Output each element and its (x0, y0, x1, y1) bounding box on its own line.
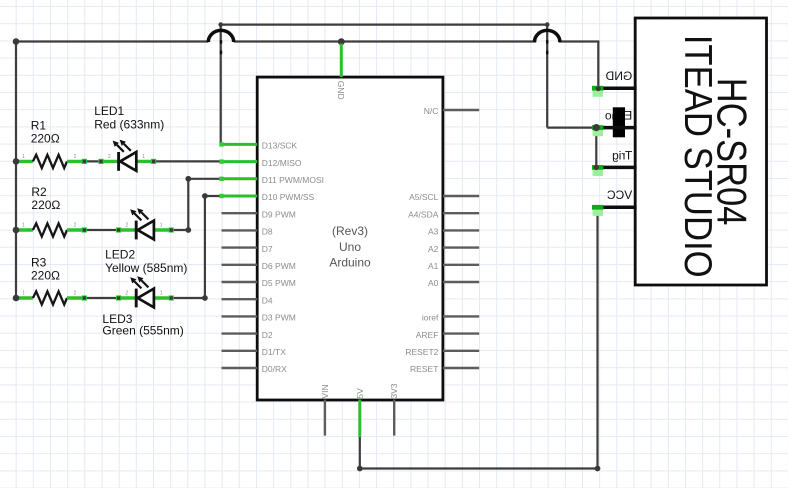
node gnd end (596, 86, 601, 91)
resistor R3 body (33, 291, 67, 304)
wire 5v down (359, 437, 361, 469)
svg-text:VCC: VCC (607, 188, 633, 202)
arduino pin D0/RX (222, 367, 258, 369)
svg-text:D7: D7 (262, 244, 273, 254)
svg-text:Yellow (585nm): Yellow (585nm) (105, 261, 187, 275)
wire row3 resistor-led (84, 297, 118, 299)
arduino pin D11 PWM/MOSI (222, 177, 258, 180)
wire d13 top horizontal (221, 24, 548, 26)
hc-sr04 pin VCC (593, 206, 637, 210)
svg-text:N/C: N/C (424, 106, 439, 116)
wire row2 to d11 (188, 178, 221, 180)
row3 pads (82, 295, 87, 300)
resistor R3 right leg (67, 296, 84, 299)
LED3 cathode bar (135, 289, 138, 308)
svg-text:D6 PWM: D6 PWM (262, 261, 296, 271)
junction gnd R1 (13, 158, 20, 165)
resistor R2 left leg (16, 228, 33, 231)
arduino pin D8 (222, 229, 258, 231)
node trig end (594, 165, 599, 170)
svg-text:A3: A3 (428, 227, 439, 237)
svg-text:1: 1 (22, 154, 25, 160)
corner d13 top (218, 22, 223, 27)
svg-text:Arduino: Arduino (329, 256, 371, 270)
corner vcc bottom (595, 466, 601, 472)
svg-text:D1/TX: D1/TX (262, 347, 286, 357)
wire row2 corner-up (187, 179, 189, 230)
arduino pin D6 PWM (222, 264, 258, 266)
svg-text:1: 1 (142, 154, 145, 160)
svg-text:A5/SCL: A5/SCL (409, 192, 439, 202)
LED3 right leg (154, 296, 171, 299)
wire gnd top horizontal seg1 (15, 40, 209, 42)
svg-text:(Rev3): (Rev3) (332, 224, 368, 238)
svg-text:2: 2 (74, 222, 77, 228)
svg-text:1: 1 (22, 290, 25, 296)
wire row2 led-corner (171, 229, 188, 231)
junction gnd R3 (13, 295, 20, 302)
svg-text:2: 2 (126, 222, 129, 228)
svg-text:D2: D2 (262, 330, 273, 340)
svg-text:220Ω: 220Ω (31, 268, 60, 282)
resistor R1 body (33, 155, 67, 168)
LED2 right leg (154, 228, 171, 231)
arduino pin GND stub (340, 44, 343, 78)
wire row1 resistor-led (84, 160, 101, 162)
svg-text:220Ω: 220Ω (31, 131, 60, 145)
corner echo top (545, 22, 550, 27)
svg-text:2: 2 (126, 290, 129, 296)
svg-text:5V: 5V (355, 388, 365, 399)
hc-sr04 pin Trig (593, 166, 637, 170)
svg-text:2: 2 (108, 154, 111, 160)
junction gnd arduino (338, 38, 345, 45)
wire row3 to d10 (205, 195, 222, 197)
wire gnd rail vertical (15, 40, 17, 298)
LED3 arrows (134, 281, 141, 288)
arduino U1 body (257, 77, 443, 400)
arduino pin D9 PWM (222, 212, 258, 214)
svg-text:RESET2: RESET2 (405, 347, 438, 357)
svg-text:1: 1 (160, 290, 163, 296)
corner row2 top (185, 176, 191, 182)
svg-text:ioref: ioref (422, 313, 439, 323)
hc-sr04 U2 body (635, 18, 766, 285)
resistor R2 body (33, 223, 67, 236)
svg-text:D8: D8 (262, 227, 273, 237)
arduino pin A5/SCL (443, 195, 479, 197)
wire row3 corner-up (204, 196, 206, 298)
svg-text:A2: A2 (428, 244, 439, 254)
junction echo (593, 124, 600, 131)
svg-text:A4/SDA: A4/SDA (408, 209, 439, 219)
arduino pin 3V3 (393, 400, 395, 436)
wire gnd top horizontal seg3 (559, 40, 600, 42)
svg-text:D5 PWM: D5 PWM (262, 278, 296, 288)
arduino pin D1/TX (222, 350, 258, 352)
arduino pin D5 PWM (222, 281, 258, 283)
svg-text:VIN: VIN (320, 384, 330, 398)
LED1 left leg (101, 160, 119, 163)
arduino pin RESET (443, 367, 479, 369)
svg-text:D10 PWM/SS: D10 PWM/SS (262, 192, 315, 202)
arduino pin A0 (443, 281, 479, 283)
wire row1 led-d12 (154, 160, 222, 162)
arduino pin 5V (358, 400, 361, 438)
arduino pin N/C (443, 109, 479, 111)
arduino pin D13/SCK (222, 143, 258, 146)
resistor R3 left leg (16, 296, 33, 299)
LED1 arrows (117, 145, 124, 152)
svg-text:D13/SCK: D13/SCK (262, 141, 298, 151)
junction gnd R2 (13, 227, 20, 234)
arduino pin A4/SDA (443, 212, 479, 214)
svg-text:Green (555nm): Green (555nm) (102, 324, 183, 338)
wire echo vertical (546, 25, 548, 128)
svg-text:3V3: 3V3 (389, 383, 399, 398)
LED2 cathode bar (135, 221, 138, 240)
arduino pin A2 (443, 246, 479, 248)
arduino pin A3 (443, 229, 479, 231)
svg-text:1: 1 (22, 222, 25, 228)
corner 5v (357, 466, 363, 472)
svg-text:LED2: LED2 (105, 248, 135, 262)
arduino pin RESET2 (443, 350, 479, 352)
arduino pin VIN (324, 400, 326, 436)
svg-text:Uno: Uno (339, 240, 361, 254)
wire gnd down to sensor (597, 42, 599, 89)
wire echo horizontal (547, 126, 596, 128)
svg-text:Trig: Trig (612, 148, 632, 162)
svg-text:AREF: AREF (416, 330, 439, 340)
LED2 left leg (119, 228, 137, 231)
svg-text:RESET: RESET (410, 364, 438, 374)
junction gnd rail top (13, 38, 20, 45)
LED3 triangle (138, 289, 154, 308)
resistor R1 left leg (16, 160, 33, 163)
svg-text:A1: A1 (428, 261, 439, 271)
arduino pin A1 (443, 264, 479, 266)
svg-text:D0/RX: D0/RX (262, 364, 287, 374)
LED1 triangle (120, 152, 136, 171)
LED3 left leg (119, 296, 137, 299)
wire row2 resistor-led (84, 229, 118, 231)
svg-text:1: 1 (160, 222, 163, 228)
hop arc left (208, 30, 233, 42)
corner row3 top (202, 193, 208, 199)
hc-sr04 pin Echo (593, 126, 637, 130)
wire 5v horizontal (360, 467, 598, 469)
hc-sr04 echo black rect (613, 107, 625, 137)
arduino pin D7 (222, 246, 258, 248)
svg-text:D12/MISO: D12/MISO (262, 158, 302, 168)
svg-text:2: 2 (74, 290, 77, 296)
svg-text:D9 PWM: D9 PWM (262, 209, 296, 219)
arduino pin AREF (443, 332, 479, 334)
resistor R2 right leg (67, 228, 84, 231)
wire vcc vertical (596, 208, 598, 469)
svg-text:GND: GND (336, 81, 346, 100)
svg-text:LED1: LED1 (94, 104, 124, 118)
wire gnd top horizontal seg2 (234, 40, 536, 42)
wire echo-trig vertical (595, 128, 597, 168)
svg-text:Red (633nm): Red (633nm) (94, 118, 164, 132)
row2 pads (82, 227, 87, 232)
corner row3 bottom (202, 295, 208, 301)
wire row3 led-corner (171, 297, 205, 299)
svg-text:GND: GND (605, 69, 632, 83)
hc-sr04 pin GND (593, 86, 637, 90)
svg-text:D11 PWM/MOSI: D11 PWM/MOSI (262, 175, 324, 185)
hop arc right (535, 30, 560, 42)
LED2 arrows (134, 213, 141, 220)
row1 pads (82, 159, 87, 164)
arduino pin D10 PWM/SS (222, 195, 258, 198)
svg-text:2: 2 (74, 154, 77, 160)
arduino pin D2 (222, 332, 258, 334)
arduino pin D12/MISO (222, 160, 258, 163)
svg-text:D4: D4 (262, 295, 273, 305)
svg-text:D3 PWM: D3 PWM (262, 313, 296, 323)
resistor R1 right leg (67, 160, 84, 163)
arduino pin ioref (443, 315, 479, 317)
wire d13 vertical (220, 25, 222, 145)
corner row2 bottom (185, 227, 191, 233)
svg-text:A0: A0 (428, 278, 439, 288)
svg-text:220Ω: 220Ω (31, 198, 60, 212)
svg-text:ITEAD STUDIO: ITEAD STUDIO (677, 35, 720, 278)
LED1 right leg (136, 160, 153, 163)
LED2 triangle (138, 221, 154, 240)
LED1 cathode bar (117, 152, 120, 171)
arduino pin D3 PWM (222, 315, 258, 317)
arduino pin D4 (222, 298, 258, 300)
